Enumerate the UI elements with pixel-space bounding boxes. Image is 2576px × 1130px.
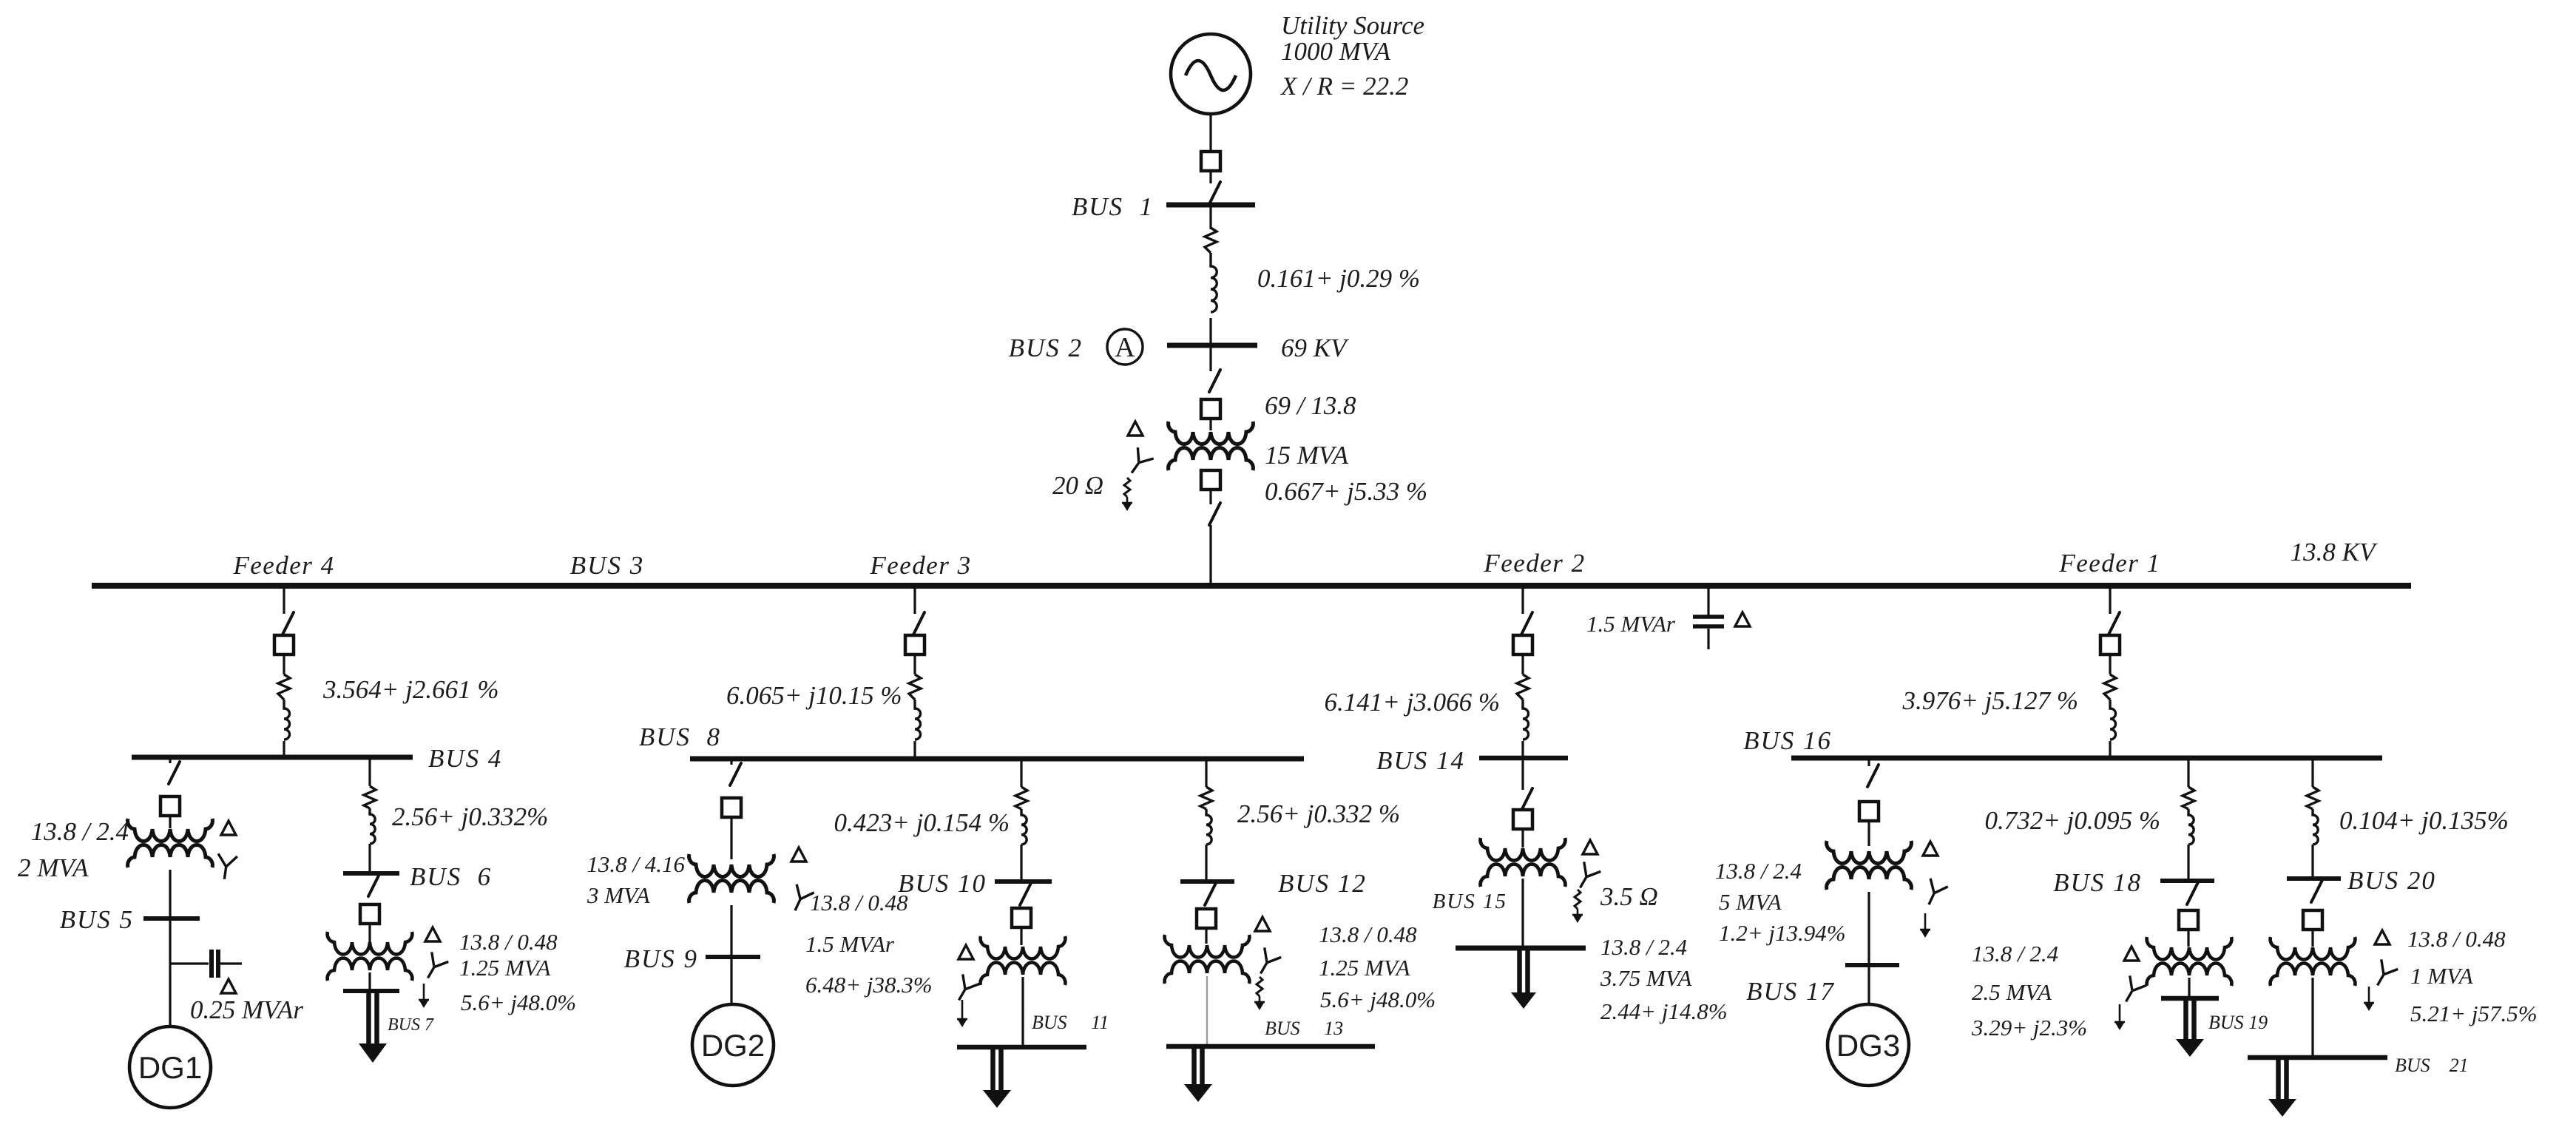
feeder 2 breaker [1513, 635, 1532, 654]
svg-text:BUS 19: BUS 19 [2208, 1012, 2268, 1033]
svg-text:13.8 / 0.48: 13.8 / 0.48 [810, 890, 908, 916]
svg-text:Feeder 3: Feeder 3 [869, 551, 971, 580]
svg-text:BUS 13: BUS 13 [1265, 1018, 1343, 1039]
svg-text:13.8 KV: 13.8 KV [2291, 538, 2378, 566]
disconnect switch above BUS 1 [1209, 182, 1220, 204]
disconnect switch below BUS 18 [2187, 882, 2198, 904]
T8 ground [1924, 913, 1927, 930]
svg-text:0.104+ j0.135%: 0.104+ j0.135% [2339, 806, 2509, 835]
feeder 2 drop wire [1521, 589, 1524, 614]
svg-text:1.2+ j13.94%: 1.2+ j13.94% [1719, 920, 1846, 946]
line impedance BUS8-BUS10 [1015, 787, 1027, 809]
svg-text:15 MVA: 15 MVA [1265, 441, 1349, 470]
T6 wye symbol [1252, 947, 1281, 978]
svg-text:5.6+ j48.0%: 5.6+ j48.0% [461, 989, 576, 1015]
svg-text:1.25 MVA: 1.25 MVA [1319, 955, 1410, 981]
bus bar BUS 18 [2160, 879, 2214, 883]
T8 delta symbol [1923, 842, 1938, 856]
svg-text:3.564+ j2.661 %: 3.564+ j2.661 % [322, 675, 499, 704]
T6 delta symbol [1255, 917, 1270, 931]
svg-text:DG2: DG2 [701, 1028, 765, 1063]
disconnect switch above T4 [730, 763, 741, 785]
svg-text:BUS 9: BUS 9 [624, 944, 698, 973]
disconnect switch below T1 [1209, 503, 1220, 525]
load arrow at BUS 19 [2186, 1001, 2194, 1042]
T9 wye symbol [2117, 975, 2146, 1006]
svg-text:Feeder 2: Feeder 2 [1483, 549, 1585, 578]
wire BUS4 to T2 switch [169, 759, 171, 763]
feeder 1 breaker [2100, 635, 2120, 654]
svg-text:BUS 10: BUS 10 [898, 869, 987, 898]
T10 delta symbol [2375, 930, 2390, 944]
bus bar BUS 11 [957, 1045, 1086, 1050]
svg-text:6.141+ j3.066 %: 6.141+ j3.066 % [1324, 688, 1500, 717]
bus bar BUS 5 [143, 916, 200, 921]
feeder 4 line impedance [278, 674, 290, 700]
T8 wye symbol [1920, 879, 1948, 909]
svg-text:Feeder 1: Feeder 1 [2058, 549, 2160, 578]
wire BUS8 to T4 switch [730, 761, 732, 765]
capacitor branch wire at BUS 5 [170, 962, 209, 964]
breaker above T2 [160, 796, 180, 816]
breaker below transformer T1 [1201, 470, 1220, 490]
wire below BUS 2 [1209, 348, 1211, 371]
svg-text:69 KV: 69 KV [1281, 334, 1349, 362]
bus bar BUS 21 [2248, 1055, 2387, 1060]
svg-text:13.8 / 2.4: 13.8 / 2.4 [1600, 934, 1687, 960]
capacitor bank branch on BUS 3 [1707, 589, 1709, 615]
svg-text:3.75 MVA: 3.75 MVA [1600, 965, 1692, 991]
T6 grounding impedance [1257, 977, 1262, 996]
wire BUS 5 down to DG1 [169, 918, 171, 1026]
svg-text:BUS 3: BUS 3 [570, 551, 644, 580]
bus bar BUS 7 [343, 989, 399, 993]
wire below source breaker [1209, 171, 1211, 183]
transformer T1 69/13.8 15 MVA [1169, 422, 1254, 444]
T2 delta symbol [221, 821, 236, 835]
disconnect switch above transformer T1 [1209, 370, 1220, 392]
svg-text:13.8 / 2.4: 13.8 / 2.4 [1972, 941, 2058, 967]
breaker above T9 [2179, 910, 2198, 930]
utility source generator circle [1171, 34, 1251, 114]
svg-text:BUS 2: BUS 2 [1009, 334, 1083, 362]
svg-text:BUS 11: BUS 11 [1032, 1012, 1109, 1033]
wire BUS16 to BUS18 impedance [2187, 760, 2189, 787]
feeder 4 disconnect switch [283, 612, 294, 635]
wire below BUS 14 [1521, 760, 1524, 790]
svg-text:0.25 MVAr: 0.25 MVAr [190, 995, 303, 1024]
svg-text:1.5 MVAr: 1.5 MVAr [1586, 611, 1676, 637]
T1 delta symbol [1128, 422, 1143, 436]
T3 wye symbol [419, 952, 448, 983]
ammeter A circle at BUS 2 [1107, 329, 1143, 365]
line impedance BUS8-BUS12 [1200, 787, 1212, 809]
breaker above transformer T1 [1201, 399, 1220, 419]
svg-text:0.667+ j5.33 %: 0.667+ j5.33 % [1265, 477, 1427, 506]
svg-text:DG1: DG1 [138, 1050, 202, 1085]
svg-text:5.6+ j48.0%: 5.6+ j48.0% [1320, 987, 1436, 1012]
disconnect switch below BUS 10 [1020, 883, 1031, 905]
T10 wye symbol [2369, 959, 2398, 990]
svg-text:2.56+ j0.332%: 2.56+ j0.332% [392, 802, 548, 831]
svg-text:A: A [1115, 332, 1135, 363]
bus bar BUS 13 [1166, 1044, 1375, 1049]
transformer T9 13.8/2.4 2.5 MVA [2147, 937, 2232, 960]
generator DG2 circle [692, 1004, 774, 1086]
svg-text:DG3: DG3 [1836, 1028, 1900, 1063]
T4 delta symbol [791, 847, 806, 862]
svg-text:69 / 13.8: 69 / 13.8 [1265, 391, 1356, 420]
feeder 3 breaker [905, 635, 924, 654]
transformer T4 13.8/4.16 3 MVA [689, 854, 774, 877]
T5 wye symbol [950, 974, 979, 1005]
svg-text:0.732+ j0.095 %: 0.732+ j0.095 % [1984, 806, 2160, 835]
load arrow at BUS 11 [993, 1049, 1001, 1093]
svg-text:2.56+ j0.332 %: 2.56+ j0.332 % [1237, 799, 1400, 828]
svg-text:13.8 / 0.48: 13.8 / 0.48 [2407, 926, 2506, 952]
load arrow at BUS 21 [2279, 1060, 2287, 1102]
svg-text:13.8 / 0.48: 13.8 / 0.48 [1319, 921, 1417, 947]
svg-text:BUS 1: BUS 1 [1072, 192, 1154, 221]
transformer T8 13.8/2.4 5 MVA [1827, 841, 1912, 864]
T7 delta symbol [1583, 840, 1598, 854]
T5 delta symbol [959, 945, 973, 959]
feeder 2 line impedance [1517, 674, 1529, 700]
bus bar BUS 9 [706, 955, 760, 959]
svg-text:BUS 18: BUS 18 [2053, 868, 2142, 897]
T9 delta symbol [2124, 947, 2139, 961]
C1 delta symbol [221, 979, 236, 993]
wire T7 to BUS 15 bar [1521, 879, 1524, 947]
T4 wye symbol [786, 884, 814, 915]
svg-text:BUS 5: BUS 5 [60, 905, 134, 934]
transformer T6 13.8/0.48 1.25 MVA [1165, 935, 1250, 958]
load arrow at BUS 13 [1194, 1049, 1203, 1087]
breaker CB at source [1201, 152, 1220, 171]
bus bar BUS 1 [1166, 203, 1255, 208]
main bus bar BUS 3 13.8 KV [92, 583, 2411, 589]
wire T9 to BUS 19 [2188, 978, 2190, 998]
svg-text:1.25 MVA: 1.25 MVA [459, 955, 551, 981]
wire BUS 9 to DG2 [730, 957, 732, 1004]
svg-text:BUS 12: BUS 12 [1278, 869, 1367, 898]
T1 wye symbol [1123, 447, 1153, 478]
breaker above T8 [1859, 802, 1879, 821]
svg-text:BUS 16: BUS 16 [1743, 726, 1832, 755]
wire T4 to BUS 9 [730, 905, 732, 957]
svg-text:BUS 7: BUS 7 [388, 1015, 434, 1035]
svg-text:3.976+ j5.127 %: 3.976+ j5.127 % [1901, 686, 2078, 715]
bus bar BUS 4 [132, 755, 413, 760]
wire BUS16 to BUS20 impedance [2311, 760, 2313, 787]
line impedance BUS16-BUS20 [2307, 787, 2319, 809]
load arrow at BUS 15 [1520, 950, 1528, 995]
svg-text:20 Ω: 20 Ω [1052, 471, 1103, 500]
bus bar BUS 6 [343, 871, 399, 876]
disconnect switch above T2 [169, 762, 180, 784]
breaker above T7 [1513, 810, 1532, 829]
svg-text:13.8 / 0.48: 13.8 / 0.48 [459, 929, 558, 955]
wire BUS16 to T8 switch [1867, 760, 1870, 766]
bus bar BUS 16 [1791, 756, 2382, 761]
T7 grounding resistor 3.5 ohm [1575, 890, 1581, 909]
disconnect switch above T7 [1521, 788, 1532, 811]
svg-text:6.48+ j38.3%: 6.48+ j38.3% [805, 972, 933, 998]
T3 ground [423, 984, 425, 1000]
wire BUS4 to BUS6 impedance [368, 759, 371, 786]
breaker above T10 [2303, 910, 2322, 930]
feeder 4 drop wire [283, 589, 285, 614]
wire T2 to BUS 5 [169, 870, 171, 918]
generator DG1 circle [129, 1026, 211, 1108]
T3 delta symbol [425, 927, 440, 941]
feeder 4 breaker [274, 635, 294, 654]
T1 grounding resistor 20 ohm [1124, 478, 1130, 497]
svg-text:5 MVA: 5 MVA [1719, 889, 1782, 915]
feeder 1 drop wire [2109, 589, 2111, 614]
feeder 3 drop wire [913, 589, 916, 614]
disconnect switch below BUS 6 [368, 874, 379, 896]
svg-text:Feeder 4: Feeder 4 [232, 551, 334, 580]
T9 ground arrow [2119, 1004, 2121, 1022]
load arrow at BUS 7 [369, 993, 377, 1046]
transformer T10 13.8/0.48 1 MVA [2271, 937, 2356, 960]
feeder 1 line impedance [2104, 674, 2116, 700]
svg-text:3.5 Ω: 3.5 Ω [1600, 882, 1658, 911]
svg-text:BUS 14: BUS 14 [1376, 746, 1465, 775]
bus bar BUS 12 [1180, 879, 1234, 884]
wire T10 to BUS 21 [2311, 978, 2313, 1055]
feeder 1 disconnect switch [2109, 612, 2120, 635]
T7 wye symbol [1572, 862, 1600, 893]
svg-text:13.8 / 4.16: 13.8 / 4.16 [586, 851, 685, 877]
svg-text:1 MVA: 1 MVA [2410, 963, 2474, 989]
wire from T1 to BUS 3 [1209, 525, 1211, 584]
wire from source to breaker [1209, 114, 1211, 152]
svg-text:6.065+ j10.15 %: 6.065+ j10.15 % [726, 681, 902, 710]
feeder 3 line impedance [909, 674, 921, 700]
svg-text:3.29+ j2.3%: 3.29+ j2.3% [1971, 1015, 2087, 1041]
svg-text:BUS 6: BUS 6 [410, 862, 492, 891]
svg-text:0.161+ j0.29 %: 0.161+ j0.29 % [1257, 264, 1420, 293]
svg-text:2.5 MVA: 2.5 MVA [1972, 979, 2052, 1005]
wire T3 to BUS 7 [368, 972, 371, 990]
bus bar BUS 15 [1456, 946, 1586, 951]
breaker above T6 [1197, 909, 1216, 928]
feeder 2 disconnect switch [1521, 612, 1532, 635]
T2 wye symbol [214, 853, 237, 880]
feeder 3 disconnect switch [913, 612, 924, 635]
svg-text:2 MVA: 2 MVA [18, 853, 89, 882]
transformer T5 13.8/0.48 1.5 MVA [981, 936, 1066, 959]
bus bar BUS 2 [1167, 343, 1257, 348]
breaker above T5 [1012, 908, 1031, 927]
bus bar BUS 14 [1479, 756, 1568, 761]
disconnect switch above T8 [1867, 765, 1879, 787]
transformer T2 13.8/2.4 2 MVA [128, 819, 213, 842]
disconnect switch below BUS 20 [2311, 880, 2322, 902]
bus bar BUS 17 [1845, 963, 1899, 967]
svg-text:BUS 17: BUS 17 [1746, 977, 1835, 1006]
bus bar BUS 20 [2287, 876, 2341, 881]
svg-text:BUS 4: BUS 4 [428, 744, 502, 773]
generator DG3 circle [1828, 1004, 1909, 1086]
transformer T7 13.8/2.4 3.75 MVA [1481, 838, 1566, 861]
capacitor C2 1.5 MVAr plates [1693, 615, 1724, 619]
svg-text:BUS 21: BUS 21 [2395, 1055, 2469, 1076]
svg-text:BUS 15: BUS 15 [1433, 890, 1507, 913]
svg-text:13.8 / 2.4: 13.8 / 2.4 [1715, 858, 1802, 884]
svg-text:3 MVA: 3 MVA [586, 882, 651, 908]
svg-text:BUS 8: BUS 8 [639, 723, 721, 751]
svg-text:5.21+ j57.5%: 5.21+ j57.5% [2410, 1001, 2538, 1026]
wire BUS8 to BUS12 impedance [1205, 761, 1207, 787]
transformer T3 13.8/0.48 1.25 MVA [328, 932, 413, 955]
line impedance BUS16-BUS18 [2183, 787, 2194, 809]
bus bar BUS 10 [995, 879, 1052, 884]
wire BUS 17 to DG3 [1867, 965, 1870, 1004]
capacitor C1 0.25 MVAr [209, 950, 214, 978]
svg-text:1.5 MVAr: 1.5 MVAr [805, 931, 895, 957]
wire T5 to BUS 11 [1021, 977, 1024, 1047]
line impedance BUS4-BUS6 [364, 786, 376, 808]
line impedance BUS1-BUS2 (resistor + inductor) [1205, 228, 1217, 253]
svg-text:X / R = 22.2: X / R = 22.2 [1279, 72, 1408, 101]
svg-text:BUS 20: BUS 20 [2347, 866, 2436, 895]
wire T8 to BUS 17 [1867, 892, 1870, 965]
breaker above T4 [722, 798, 741, 817]
svg-text:13.8 / 2.4: 13.8 / 2.4 [31, 817, 129, 846]
T5 ground arrow [961, 1000, 964, 1019]
bus bar BUS 8 [690, 757, 1304, 762]
breaker above T3 [360, 904, 379, 924]
bus bar BUS 19 [2161, 996, 2219, 1001]
svg-text:2.44+ j14.8%: 2.44+ j14.8% [1600, 998, 1728, 1024]
svg-text:Utility Source: Utility Source [1281, 11, 1424, 40]
disconnect switch below BUS 12 [1205, 883, 1216, 905]
T10 ground [2368, 987, 2370, 1003]
wire T6 to BUS 13 (gray) [1206, 976, 1208, 1046]
C2 delta symbol [1735, 612, 1750, 626]
wire BUS8 to BUS10 impedance [1020, 761, 1022, 787]
svg-text:1000 MVA: 1000 MVA [1281, 37, 1391, 66]
svg-text:0.423+ j0.154 %: 0.423+ j0.154 % [834, 808, 1010, 837]
